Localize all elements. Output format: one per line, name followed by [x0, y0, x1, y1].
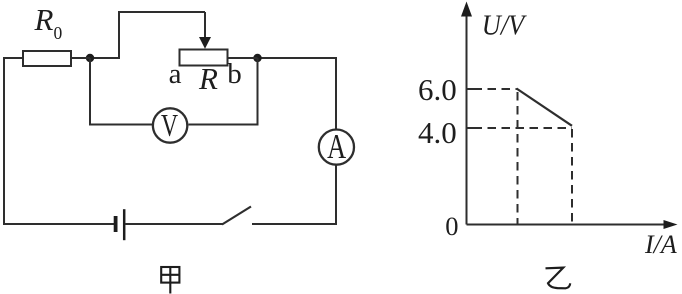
svg-text:4.0: 4.0: [418, 115, 457, 150]
wire top rail over to wiper: [90, 12, 205, 58]
wire R0 right lead: [71, 57, 90, 59]
svg-text:6.0: 6.0: [418, 72, 457, 107]
junction node B: [253, 54, 261, 62]
y-axis U/V: [461, 2, 472, 225]
wire left side vertical: [3, 57, 5, 225]
label jia (甲): [161, 267, 179, 294]
wire ammeter to top rail: [335, 58, 337, 129]
ammeter A1: [319, 127, 354, 166]
wire voltmeter branch right: [189, 58, 258, 125]
svg-text:0: 0: [54, 23, 63, 43]
wire voltmeter branch left: [90, 58, 152, 125]
label yi (乙): [546, 268, 571, 289]
svg-text:a: a: [169, 58, 182, 90]
junction node A: [86, 54, 94, 62]
switch S1: [222, 207, 251, 225]
tick 4.0: [467, 127, 474, 129]
wire battery to switch: [126, 223, 224, 225]
U-I characteristic line: [517, 89, 573, 126]
wire right side vertical lower: [335, 165, 337, 225]
svg-text:R: R: [198, 61, 218, 96]
dashed vertical at I1: [517, 92, 519, 224]
dashed vertical at I2: [571, 129, 573, 224]
resistor R0 body: [23, 51, 71, 66]
dashed line 4.0 level: [474, 127, 573, 129]
wire R0 left lead: [4, 57, 23, 59]
tick 6.0: [467, 88, 474, 90]
svg-text:U/V: U/V: [482, 9, 527, 41]
voltmeter V1: [153, 107, 187, 143]
wire bottom left to battery: [3, 223, 114, 225]
svg-text:b: b: [227, 58, 242, 90]
svg-text:0: 0: [445, 211, 458, 241]
svg-text:A: A: [327, 127, 347, 166]
dashed line 6.0 level: [474, 88, 517, 90]
battery B1: [116, 209, 125, 240]
rheostat wiper arrow: [199, 12, 211, 49]
svg-text:I/A: I/A: [644, 230, 677, 259]
rheostat R body: [180, 50, 228, 66]
wire switch to bottom right corner: [252, 223, 337, 225]
svg-text:R: R: [34, 2, 54, 37]
x-axis I/A: [467, 220, 678, 229]
svg-text:V: V: [161, 107, 178, 143]
wire top rail right: [258, 57, 337, 59]
wire rheostat b lead: [228, 57, 258, 59]
